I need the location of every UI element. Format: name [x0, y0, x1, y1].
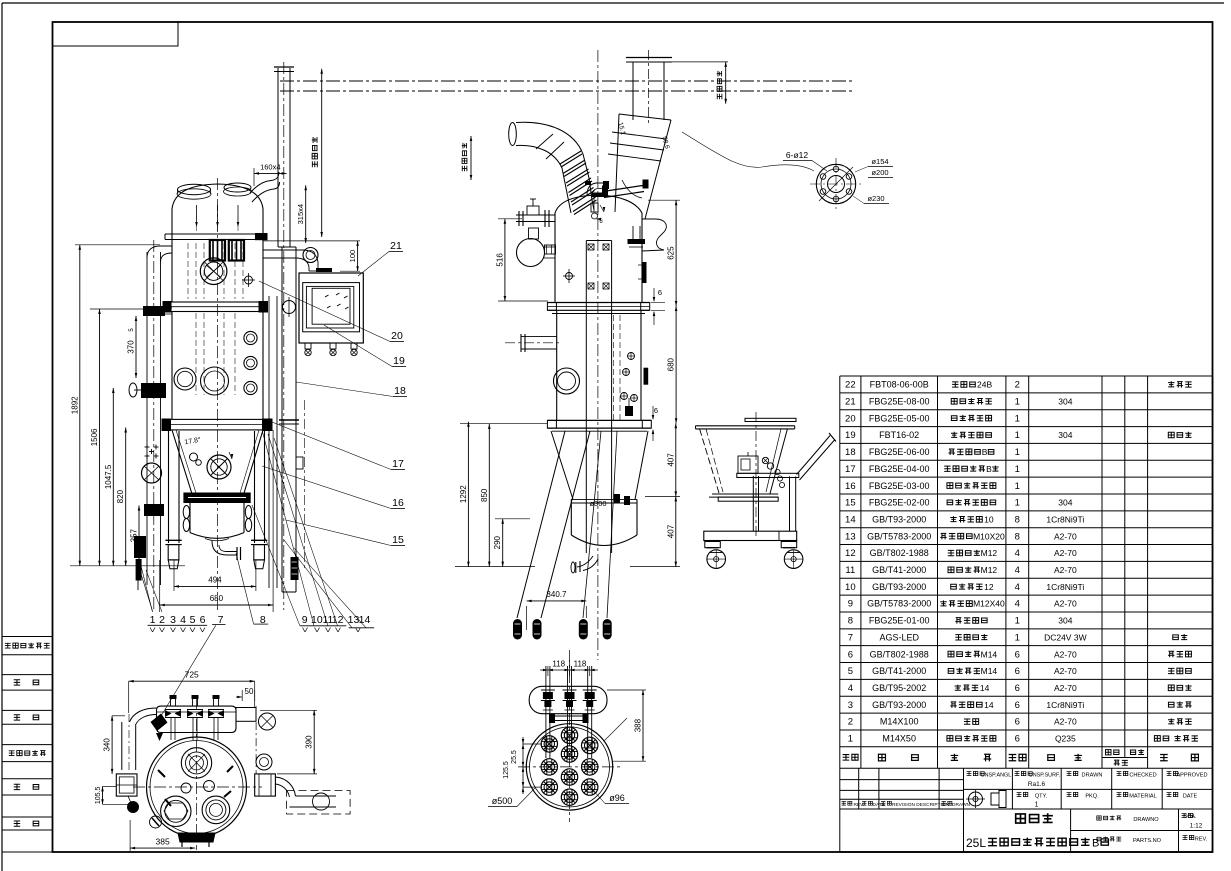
svg-text:304: 304 [1058, 430, 1072, 440]
cart arm [737, 473, 799, 477]
svg-text:20: 20 [391, 330, 403, 342]
svg-text:6: 6 [1015, 666, 1020, 677]
svg-text:10: 10 [311, 614, 323, 626]
cart centerline [755, 412, 757, 538]
svg-text:UNSP.ANGL: UNSP.ANGL [981, 773, 1011, 779]
svg-text:125.5: 125.5 [503, 761, 510, 779]
svg-text:1: 1 [1035, 802, 1039, 809]
svg-text:ø230: ø230 [867, 194, 884, 203]
svg-text:290: 290 [493, 535, 502, 549]
svg-text:7: 7 [848, 632, 853, 643]
svg-text:9: 9 [848, 599, 853, 610]
cover band [165, 233, 268, 235]
top-left reference box [53, 22, 179, 46]
projection symbol [969, 792, 983, 806]
distributor dims 118 118 [547, 666, 549, 676]
svg-text:M14X100: M14X100 [880, 717, 919, 727]
cart casters [707, 550, 726, 569]
svg-text:GB/T5783-2000: GB/T5783-2000 [867, 531, 931, 541]
svg-text:17: 17 [392, 458, 404, 470]
svg-text:50: 50 [245, 687, 254, 696]
border outer frame [2, 2, 1224, 4]
svg-text:5: 5 [190, 614, 196, 626]
svg-text:340.7: 340.7 [546, 590, 567, 599]
plan left foot [128, 802, 139, 813]
svg-text:6: 6 [658, 288, 662, 297]
cone small fittings [190, 453, 198, 461]
svg-text:6: 6 [654, 406, 658, 415]
section angled duct [619, 114, 671, 120]
svg-text:6: 6 [1015, 649, 1020, 660]
right S nozzle [642, 219, 666, 251]
svg-text:304: 304 [1058, 498, 1072, 508]
svg-text:FBT08-06-00B: FBT08-06-00B [870, 380, 929, 390]
main shell [171, 312, 173, 420]
panel feet bolts [305, 343, 311, 349]
svg-text:M14: M14 [981, 666, 998, 676]
cart handle [797, 436, 831, 475]
cone port hatched [207, 455, 231, 479]
svg-text:1892: 1892 [70, 396, 79, 414]
plan right elbow dashed [275, 777, 295, 796]
section shell [554, 213, 556, 303]
svg-text:16: 16 [392, 497, 404, 509]
svg-text:22: 22 [845, 380, 856, 391]
plan left flange block [116, 774, 137, 796]
dome nozzle right [224, 183, 251, 192]
svg-text:4: 4 [848, 683, 853, 694]
section lower flange [547, 419, 651, 421]
internal guide lines [187, 243, 189, 299]
flange detail top right [816, 164, 855, 203]
dome elbow fitting [587, 183, 604, 195]
duct mitre joints [536, 134, 553, 149]
svg-text:390: 390 [305, 735, 314, 749]
cart hopper bottom plates [712, 493, 778, 495]
distributor centerlines [569, 650, 571, 822]
cart hopper sides [700, 429, 720, 494]
svg-text:M14X50: M14X50 [882, 734, 916, 744]
svg-text:625: 625 [667, 246, 676, 260]
plan small ports [181, 783, 191, 793]
dome nozzle left [178, 184, 211, 194]
svg-text:11: 11 [845, 565, 855, 576]
svg-text:10: 10 [845, 582, 856, 593]
svg-text:ø200: ø200 [871, 168, 888, 177]
section bottom dim 340.7 [526, 606, 528, 630]
control panel [299, 273, 363, 343]
section dome [555, 195, 642, 213]
plan dims [128, 681, 130, 713]
plan main circles [147, 737, 247, 837]
svg-text:1: 1 [1015, 481, 1020, 492]
front dim 315x4 [305, 185, 307, 243]
svg-text:680: 680 [210, 594, 224, 603]
svg-text:1Cr8Ni9Ti: 1Cr8Ni9Ti [1046, 514, 1084, 524]
section dims right [664, 61, 728, 63]
svg-text:6: 6 [848, 649, 853, 660]
anchor symbol [566, 273, 573, 280]
svg-text:6: 6 [1015, 734, 1020, 745]
front bottom dim 494 [173, 560, 175, 591]
plan right top nozzle [259, 713, 276, 730]
svg-text:118: 118 [552, 660, 565, 669]
small side ports [244, 331, 257, 344]
svg-text:APPROVED: APPROVED [1176, 773, 1207, 779]
panel inlet circle [303, 248, 318, 263]
column bolts [588, 244, 594, 250]
front view dome head [172, 184, 263, 209]
distributor dim 388 [607, 689, 646, 691]
svg-text:4: 4 [1015, 582, 1020, 593]
svg-text:118: 118 [574, 660, 587, 669]
right support column [268, 296, 270, 588]
callout leaders 1-6 [140, 562, 153, 612]
svg-text:19: 19 [845, 430, 856, 441]
svg-text:M14: M14 [981, 649, 998, 659]
svg-text:21: 21 [390, 240, 402, 252]
front view centerline [217, 178, 219, 612]
svg-text:GB/T802-1988: GB/T802-1988 [870, 548, 929, 558]
viewport circle [554, 368, 580, 394]
svg-text:25L: 25L [966, 836, 986, 850]
svg-text:14: 14 [980, 683, 990, 693]
svg-text:GB/T41-2000: GB/T41-2000 [872, 565, 926, 575]
upper port flange [200, 258, 227, 285]
svg-text:3: 3 [848, 700, 853, 711]
inner right nozzle [632, 226, 634, 239]
left pipe handwheel [142, 463, 162, 483]
internal fittings right [613, 315, 615, 420]
plan top plate [157, 706, 237, 732]
svg-text:25.5: 25.5 [511, 750, 518, 764]
cart base [704, 531, 797, 540]
svg-text:ø96: ø96 [609, 793, 625, 803]
svg-text:1506: 1506 [90, 428, 99, 446]
svg-text:385: 385 [156, 837, 170, 847]
left nozzle pipe [521, 336, 557, 338]
dome spray valve [591, 203, 598, 212]
svg-text:340: 340 [103, 738, 112, 752]
support legs [168, 431, 170, 543]
svg-text:1: 1 [150, 614, 156, 626]
svg-text:ø154: ø154 [871, 157, 888, 166]
wheels [513, 619, 522, 640]
shell ports [174, 368, 196, 390]
svg-text:FBG25E-06-00: FBG25E-06-00 [869, 447, 930, 457]
cart post [752, 476, 754, 531]
svg-text:100: 100 [348, 250, 357, 263]
svg-text:7: 7 [218, 614, 224, 626]
product bowl [189, 503, 191, 533]
dome stud bolts [196, 205, 198, 222]
inner column [585, 241, 587, 554]
svg-text:M10X20: M10X20 [973, 531, 1005, 541]
lower bowl [570, 499, 572, 535]
svg-text:388: 388 [634, 718, 643, 732]
svg-text:AGS-LED: AGS-LED [879, 632, 919, 642]
distributor studs [545, 666, 547, 758]
svg-text:4: 4 [1015, 565, 1020, 576]
plan lower left port [161, 796, 191, 826]
svg-text:FBG25E-03-00: FBG25E-03-00 [869, 481, 930, 491]
svg-text:357: 357 [130, 528, 139, 542]
title block [840, 779, 964, 781]
plan lower right port [202, 796, 230, 824]
svg-text:1: 1 [848, 734, 853, 745]
flange band 1 [166, 302, 265, 312]
svg-text:QTY.: QTY. [1035, 794, 1048, 800]
svg-text:1: 1 [1015, 464, 1020, 475]
svg-text:1: 1 [1015, 396, 1020, 407]
svg-text:GB/T93-2000: GB/T93-2000 [872, 582, 926, 592]
svg-text:GB/T5783-2000: GB/T5783-2000 [867, 599, 931, 609]
svg-text:Ra1.6: Ra1.6 [1028, 781, 1046, 788]
svg-text:ø500: ø500 [492, 796, 513, 806]
svg-text:160x4: 160x4 [260, 163, 280, 172]
svg-text:FBG25E-05-00: FBG25E-05-00 [869, 413, 930, 423]
front bottom dim 680 [159, 560, 161, 612]
left pipe valve [141, 383, 166, 398]
svg-text:DRAWN: DRAWN [952, 802, 970, 808]
svg-text:407: 407 [666, 524, 675, 538]
svg-text:15: 15 [392, 534, 404, 546]
svg-text:1Cr8Ni9Ti: 1Cr8Ni9Ti [1046, 700, 1084, 710]
svg-text:4: 4 [1015, 599, 1020, 610]
svg-text:304: 304 [1058, 616, 1072, 626]
svg-text:DC24V 3W: DC24V 3W [1044, 632, 1087, 642]
svg-text:M12X40: M12X40 [973, 599, 1005, 609]
svg-text:1: 1 [1015, 498, 1020, 509]
left instrument assembly [516, 214, 555, 216]
bowl clamps right [245, 506, 251, 519]
svg-text:CHECKED: CHECKED [1129, 773, 1156, 779]
cart bracket [738, 456, 758, 473]
left utility pipe [146, 252, 148, 585]
svg-text:Q235: Q235 [1055, 734, 1076, 744]
svg-text:12: 12 [984, 582, 994, 592]
svg-text:PKQ.: PKQ. [1085, 794, 1099, 800]
top pipeline dash-dot lines [280, 80, 853, 82]
svg-text:6: 6 [1015, 700, 1020, 711]
svg-text:105.5: 105.5 [95, 786, 102, 804]
BOM header row [843, 755, 850, 761]
svg-text:8: 8 [1015, 531, 1020, 542]
svg-text:8: 8 [848, 616, 853, 627]
svg-text:24B: 24B [977, 380, 992, 390]
cart handle post [789, 476, 791, 531]
svg-text:REVISION DESCRIPTION: REVISION DESCRIPTION [892, 802, 950, 808]
svg-text:680: 680 [667, 357, 676, 371]
cart top rail [745, 418, 796, 421]
svg-text:304: 304 [1058, 396, 1072, 406]
distributor top capsule [529, 686, 607, 713]
callout leader 7 [158, 625, 216, 721]
left instrument ball [517, 239, 545, 267]
column clamps bottom [614, 494, 620, 503]
svg-text:17: 17 [845, 464, 856, 475]
svg-text:6: 6 [200, 614, 206, 626]
control panel connection pipe [263, 249, 303, 251]
right wall sensor [642, 262, 647, 283]
sight glass right [229, 240, 244, 261]
svg-text:15: 15 [845, 498, 856, 509]
bowl drain [577, 556, 593, 567]
svg-text:1: 1 [1015, 413, 1020, 424]
riser flange marks [279, 419, 299, 421]
svg-text:GB/T95-2002: GB/T95-2002 [872, 683, 926, 693]
section top exhaust pipe [632, 62, 634, 120]
vent symbol [245, 276, 253, 284]
svg-text:725: 725 [185, 670, 199, 680]
svg-text:1: 1 [1015, 616, 1020, 627]
svg-text:2: 2 [1015, 380, 1020, 391]
svg-text:19: 19 [393, 355, 405, 367]
front riser lower section [281, 247, 283, 592]
svg-text:SCA.: SCA. [1183, 814, 1197, 820]
plan bottom clamp [178, 833, 215, 842]
svg-text:14: 14 [359, 614, 371, 626]
parts table (BOM) [840, 375, 1213, 377]
upper shell [171, 209, 173, 302]
svg-text:B: B [986, 464, 992, 474]
plan right block [255, 774, 276, 796]
left dims [75, 244, 160, 246]
section left bellows duct [509, 123, 517, 146]
svg-text:MATERIAL: MATERIAL [1129, 794, 1157, 800]
plan right mid nozzle [256, 754, 272, 770]
leader curve to flange detail [682, 132, 814, 171]
svg-text:12: 12 [332, 614, 344, 626]
section centerline [597, 50, 599, 660]
drain elbow [212, 541, 237, 555]
svg-text:14: 14 [984, 700, 994, 710]
svg-text:1: 1 [1015, 430, 1020, 441]
svg-text:A2-70: A2-70 [1054, 599, 1077, 609]
riser flow indicator [283, 301, 296, 314]
left utility pipe centerline [153, 240, 155, 610]
plan centerlines [196, 698, 198, 850]
svg-text:FBG25E-01-00: FBG25E-01-00 [869, 616, 930, 626]
svg-text:A2-70: A2-70 [1054, 666, 1077, 676]
svg-text:6-ø12: 6-ø12 [786, 150, 808, 160]
svg-text:18: 18 [394, 385, 406, 397]
svg-text:10: 10 [984, 514, 994, 524]
svg-text:B: B [982, 447, 988, 457]
svg-text:UNSP.SURF.: UNSP.SURF. [1029, 773, 1060, 779]
svg-text:4: 4 [1015, 548, 1020, 559]
svg-text:GB/T802-1988: GB/T802-1988 [870, 649, 929, 659]
svg-text:GB/T93-2000: GB/T93-2000 [872, 514, 926, 524]
svg-text:FBT16-02: FBT16-02 [879, 430, 919, 440]
svg-text:DRAWNO: DRAWNO [1133, 817, 1159, 823]
svg-text:494: 494 [208, 576, 222, 585]
right lower bolt [625, 406, 633, 416]
svg-text:A2-70: A2-70 [1054, 565, 1077, 575]
left pipe flange 2 [144, 504, 164, 516]
svg-text:1292: 1292 [459, 485, 468, 503]
section cone to bowl [551, 431, 573, 499]
left revision column boxes [2, 636, 53, 638]
section flange mid [547, 302, 649, 304]
plan rim lugs [158, 770, 165, 777]
title text box [1070, 809, 1072, 852]
distributor circles [526, 724, 612, 810]
riser top label [321, 69, 323, 237]
svg-text:850: 850 [480, 488, 489, 502]
svg-text:13: 13 [845, 531, 856, 542]
svg-text:A2-70: A2-70 [1054, 683, 1077, 693]
callout leaders 13-14 [284, 540, 352, 628]
plan center port [181, 748, 211, 778]
svg-text:5: 5 [848, 666, 853, 677]
bowl flange bold [183, 493, 250, 504]
svg-text:GB/T93-2000: GB/T93-2000 [872, 700, 926, 710]
svg-text:1: 1 [1015, 632, 1020, 643]
svg-text:REV.: REV. [1195, 837, 1208, 843]
svg-text:GB/T41-2000: GB/T41-2000 [872, 666, 926, 676]
front view exhaust riser pipe [277, 68, 279, 247]
legs diagonals [517, 431, 565, 618]
svg-text:20: 20 [845, 413, 856, 424]
panel top hanger [318, 270, 330, 272]
svg-text:370: 370 [127, 340, 136, 354]
svg-text:4: 4 [180, 614, 186, 626]
left pipe bottom flange [134, 536, 146, 558]
svg-text:FBG25E-02-00: FBG25E-02-00 [869, 498, 930, 508]
svg-text:1047.5: 1047.5 [104, 464, 113, 489]
svg-text:PARTS.NO: PARTS.NO [1133, 838, 1162, 844]
feet [165, 539, 181, 541]
plan left elbow pipe [130, 708, 157, 722]
svg-text:14: 14 [845, 514, 856, 525]
plan nozzle studs [170, 697, 172, 706]
svg-text:315x4: 315x4 [296, 204, 305, 224]
svg-text:8: 8 [1015, 514, 1020, 525]
svg-text:12: 12 [845, 548, 856, 559]
bowl clamps left [183, 506, 189, 519]
svg-text:M12: M12 [981, 565, 998, 575]
svg-text:A2-70: A2-70 [1054, 531, 1077, 541]
distributor dims 125.5 25.5 [523, 743, 542, 745]
svg-text:516: 516 [495, 253, 504, 267]
svg-text:1: 1 [1015, 447, 1020, 458]
distributor bracket [551, 715, 588, 717]
svg-text:16: 16 [845, 481, 856, 492]
svg-text:M12: M12 [981, 548, 998, 558]
section dims left [498, 218, 522, 220]
svg-text:820: 820 [116, 489, 125, 503]
distributor holes hatched [541, 736, 557, 752]
cart caster mounts [705, 542, 721, 548]
svg-text:A2-70: A2-70 [1054, 548, 1077, 558]
svg-text:2: 2 [848, 717, 853, 728]
svg-text:6: 6 [1015, 717, 1020, 728]
cone section [172, 430, 193, 496]
callout leaders 9-12 [252, 505, 300, 626]
panel column dashed line [304, 400, 306, 570]
svg-text:18: 18 [845, 447, 856, 458]
svg-text:3: 3 [170, 614, 176, 626]
left pipe cross marks [145, 446, 150, 448]
svg-text:1:12: 1:12 [1190, 823, 1203, 830]
svg-text:2: 2 [159, 614, 165, 626]
flange band 2 [166, 419, 267, 430]
bellows rings [560, 151, 581, 164]
svg-text:407: 407 [666, 453, 675, 467]
sight glass left [210, 240, 225, 261]
svg-text:DATE: DATE [1183, 794, 1198, 800]
